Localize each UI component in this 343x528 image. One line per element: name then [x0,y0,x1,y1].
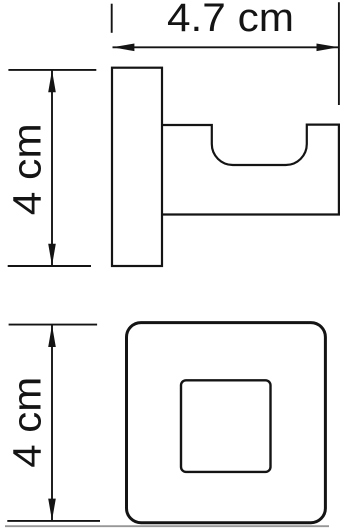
front view outer rounded square [127,323,326,523]
extension line top (front view 4 cm) [9,324,98,326]
arrow right of 4.7 cm [317,44,339,52]
arrow up (front view 4 cm) [48,325,56,347]
extension line bottom (front view 4 cm) [7,520,100,522]
svg-text:4 cm: 4 cm [6,123,50,215]
front view inner square (hook cross-section) [181,380,271,472]
arrow left of 4.7 cm [112,44,134,52]
arrow down (front view 4 cm) [48,499,56,521]
extension line bottom (side view 4 cm) [8,265,91,267]
dimension line 4.7 cm [113,46,339,48]
grey divider at bottom [5,525,329,527]
dimension line front view 4 cm [51,325,53,521]
dimension line side view 4 cm [51,70,53,265]
extension line right (4.7 cm) [338,2,340,105]
arrow down (side view 4 cm) [48,244,56,266]
arrow up (side view 4 cm) [48,70,56,92]
hook arm with notch (side view) [162,125,339,215]
svg-text:4.7 cm: 4.7 cm [167,0,294,40]
wall plate (side view) [112,68,162,266]
extension line left (4.7 cm) [111,4,113,33]
extension line top (side view 4 cm) [8,69,96,71]
svg-text:4 cm: 4 cm [6,377,50,468]
